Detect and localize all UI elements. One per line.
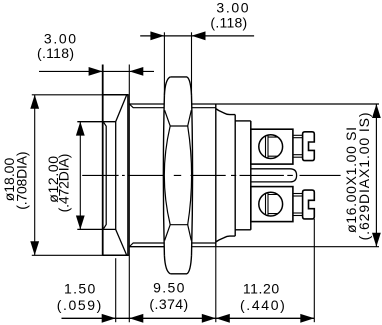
flange top edge	[103, 94, 129, 96]
flange bottom edge	[103, 254, 129, 256]
screw head bottom	[259, 190, 283, 218]
svg-text:(.374): (.374)	[149, 296, 188, 312]
terminal block top	[251, 129, 293, 164]
dimension 9.50 / 11.20 arrows at shared extension	[216, 317, 314, 319]
body shelf top	[235, 120, 251, 122]
dimension ø18 line	[34, 95, 36, 256]
screw head top	[259, 133, 283, 160]
dimension ø16 thread line	[375, 104, 377, 247]
svg-text:(.118): (.118)	[210, 15, 247, 31]
svg-text:(.059): (.059)	[57, 297, 102, 313]
dimension ø12 bottom extension	[77, 228, 115, 230]
hex nut right side	[192, 95, 193, 255]
button face	[104, 122, 107, 228]
hex nut bottom chamfer arcs	[164, 255, 170, 273]
hex nut lower facet waist	[165, 225, 192, 241]
thread major line bottom	[129, 246, 164, 248]
bezel chamfer bottom	[116, 230, 127, 256]
body bottom chamfer	[216, 236, 235, 242]
flange back face	[127, 95, 129, 256]
svg-text:(.708DIA): (.708DIA)	[13, 152, 29, 210]
body shelf bottom	[235, 229, 251, 231]
dimension 1.50 line and arrows	[62, 317, 216, 319]
dimension ø18 arrows	[30, 95, 39, 109]
centerline axis	[82, 174, 340, 176]
hex nut top chamfer arcs	[164, 77, 170, 95]
hex nut bottom flat	[170, 273, 187, 275]
thread minor line top	[130, 104, 165, 108]
dimension ø12 top extension	[77, 121, 115, 123]
dimension 11.20 right arrow	[300, 314, 314, 323]
flange front face	[102, 65, 104, 256]
hex nut top flat	[170, 76, 187, 78]
quick-connect tab top	[303, 132, 315, 161]
dimension ø18 bottom extension	[32, 254, 130, 256]
terminal neck lines bottom	[293, 194, 303, 216]
svg-text:(.472DIA): (.472DIA)	[56, 154, 72, 213]
thread minor line bottom	[130, 243, 165, 247]
dimension 3.00 middle line and arrows	[140, 35, 254, 37]
thread major line top	[129, 103, 164, 105]
terminal carrier left edge	[250, 121, 252, 230]
hex nut left side	[163, 95, 164, 255]
svg-text:(.118): (.118)	[37, 45, 74, 61]
hex nut facet corner arc right	[188, 126, 192, 225]
body top chamfer	[216, 109, 235, 115]
svg-text:3.00: 3.00	[216, 0, 248, 16]
terminal neck lines top	[293, 135, 303, 157]
hex nut upper facet waist	[165, 110, 192, 126]
body step edge vertical	[234, 115, 236, 237]
bezel cone silhouette	[115, 122, 117, 230]
switch body front face	[215, 104, 217, 247]
svg-text:11.20: 11.20	[243, 280, 280, 296]
bezel chamfer top	[116, 95, 127, 122]
dimension ø18 top extension	[32, 94, 103, 96]
hex nut facet corner arc left	[164, 126, 170, 225]
dimension ø12 arrows	[76, 122, 85, 136]
dimension 3.00 left line and arrows	[39, 70, 154, 72]
dimension ø12 line	[79, 122, 81, 230]
quick-connect tab bottom	[303, 190, 315, 219]
svg-text:9.50: 9.50	[153, 280, 185, 296]
svg-text:1.50: 1.50	[64, 280, 96, 296]
svg-text:(.629DIAX1.00 IS): (.629DIAX1.00 IS)	[356, 112, 372, 240]
svg-text:(.440): (.440)	[240, 297, 285, 313]
terminal block bottom	[251, 187, 293, 222]
bottom extension lines	[115, 258, 117, 322]
center slot between blocks	[251, 169, 297, 182]
